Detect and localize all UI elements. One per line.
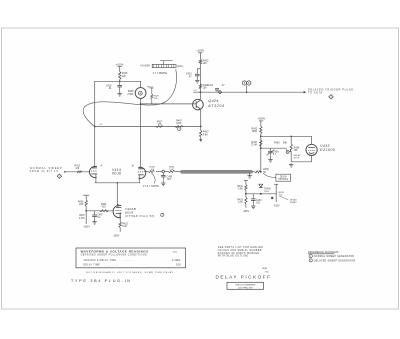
svg-text:400 THRU 499: 400 THRU 499 [238, 287, 253, 289]
svg-text:56K: 56K [283, 143, 288, 145]
svg-text:47K: 47K [154, 98, 158, 100]
svg-text:2.7 = 680/5W: 2.7 = 680/5W [153, 72, 168, 75]
svg-text:RANGES OF PARTS MARKED: RANGES OF PARTS MARKED [218, 252, 260, 255]
svg-text:1: 1 [162, 215, 163, 217]
svg-text:27MA: 27MA [127, 93, 133, 96]
svg-text:4.67K: 4.67K [79, 218, 85, 220]
svg-text:4.5-4/3W: 4.5-4/3W [140, 65, 150, 68]
svg-text:+100V: +100V [116, 62, 124, 66]
svg-text:DELAY: DELAY [290, 198, 298, 201]
svg-text:6DJ8: 6DJ8 [125, 211, 134, 215]
svg-text:2: 2 [179, 129, 180, 131]
svg-text:6.8K: 6.8K [203, 133, 208, 136]
svg-text:A: A [99, 164, 102, 168]
svg-text:180K: 180K [252, 130, 258, 133]
svg-text:-100V: -100V [273, 205, 280, 207]
svg-text:Q424: Q424 [208, 99, 219, 103]
svg-text:. . . . . .: . . . . . . . . . [123, 260, 134, 262]
svg-text:TYPE 3B4 PLUG-IN: TYPE 3B4 PLUG-IN [71, 278, 132, 283]
svg-text:5.6K: 5.6K [238, 189, 243, 191]
svg-text:MRH: MRH [262, 268, 267, 270]
svg-text:PICKOFF: PICKOFF [278, 179, 288, 181]
svg-text:+100V: +100V [196, 48, 204, 52]
svg-text:SEE PARTS LIST FOR EARLIER: SEE PARTS LIST FOR EARLIER [218, 246, 263, 249]
svg-text:(CAL): (CAL) [177, 65, 183, 68]
svg-text:DELAY: DELAY [280, 175, 288, 178]
svg-text:2.00: 2.00 [176, 264, 181, 266]
svg-text:were: were [173, 250, 179, 253]
svg-text:12K: 12K [203, 62, 208, 65]
svg-text:STOP: STOP [294, 158, 300, 160]
svg-text:&T3204: &T3204 [208, 104, 224, 108]
svg-text:R438: R438 [274, 143, 280, 145]
svg-text:NORMAL SWEEP: NORMAL SWEEP [30, 166, 63, 170]
svg-text:82K: 82K [79, 204, 84, 206]
svg-text:1: 1 [59, 176, 60, 178]
svg-text:1 mSEC: 1 mSEC [172, 260, 181, 262]
svg-text:8.2K: 8.2K [122, 226, 127, 228]
svg-text:+12: +12 [99, 124, 102, 126]
svg-text:100K: 100K [176, 123, 182, 125]
svg-text:DELAYED SWEEP GENERATOR: DELAYED SWEEP GENERATOR [314, 259, 356, 262]
svg-text:2: 2 [310, 260, 311, 262]
svg-text:R435: R435 [279, 192, 285, 194]
svg-text:FROM 40 R/T 15: FROM 40 R/T 15 [30, 171, 59, 173]
svg-text:NOT NECESSARILY UNIT VOLTAGES,: NOT NECESSARILY UNIT VOLTAGES, SOME TIME… [86, 271, 174, 274]
svg-text:72.4K: 72.4K [251, 144, 258, 147]
svg-text:-150V: -150V [83, 226, 90, 229]
svg-text:C438: C438 [273, 151, 279, 153]
svg-text:+300V: +300V [257, 117, 265, 121]
svg-text:C436: C436 [167, 176, 173, 178]
svg-text:47K: 47K [158, 124, 163, 126]
svg-text:VALUES AND SERIAL NUMBER: VALUES AND SERIAL NUMBER [218, 249, 262, 252]
svg-text:NORMAL SWEEP GENERATOR: NORMAL SWEEP GENERATOR [314, 255, 355, 258]
svg-text:+12: +12 [193, 90, 196, 92]
svg-text:-150V: -150V [113, 234, 120, 237]
svg-text:TO SG78: TO SG78 [308, 91, 323, 95]
svg-text:WITH BLUE OUTLINE.: WITH BLUE OUTLINE. [218, 256, 250, 258]
svg-text:EZ1000: EZ1000 [320, 148, 335, 152]
svg-text:B: B [132, 164, 134, 168]
svg-text:6DJ8: 6DJ8 [112, 172, 121, 176]
svg-text:.001: .001 [167, 179, 172, 181]
svg-text:1: 1 [310, 256, 311, 258]
svg-text:-150V: -150V [243, 210, 250, 213]
svg-text:DELAY TIME: DELAY TIME [83, 263, 100, 266]
svg-text:WAVEFORMS & VOLTAGE READINGS: WAVEFORMS & VOLTAGE READINGS [81, 249, 149, 253]
svg-text:15K: 15K [294, 150, 299, 152]
svg-text:. . . . . .: . . . . . . . . . . . . [103, 264, 118, 266]
svg-text:12K: 12K [122, 75, 127, 78]
svg-text:1.2K: 1.2K [169, 169, 174, 171]
svg-text:DELAY PICKOFF: DELAY PICKOFF [216, 275, 272, 280]
svg-text:2.7-6 = 720/5W: 2.7-6 = 720/5W [143, 186, 160, 188]
svg-text:2: 2 [331, 97, 332, 99]
svg-text:.001: .001 [256, 202, 261, 204]
svg-text:(OTHER HALF 58): (OTHER HALF 58) [125, 215, 155, 218]
svg-text:B408: B408 [128, 91, 134, 93]
svg-text:CIRCUIT NUMBERS: CIRCUIT NUMBERS [235, 284, 256, 286]
svg-text:4.7K: 4.7K [238, 202, 243, 204]
svg-text:DELAY: DELAY [294, 154, 302, 157]
svg-text:TRIG/DIV & DELAY TIME: TRIG/DIV & DELAY TIME [83, 259, 116, 262]
svg-text:OBTAINED UNDER FOLLOWING CONDI: OBTAINED UNDER FOLLOWING CONDITIONS: [81, 253, 148, 256]
svg-text:START: START [290, 201, 298, 204]
svg-text:C424: C424 [208, 85, 214, 87]
